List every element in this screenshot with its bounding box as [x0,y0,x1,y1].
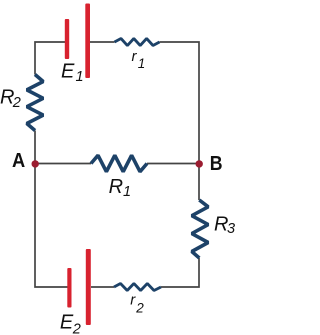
svg-text:1: 1 [123,184,131,200]
svg-text:2: 2 [72,321,81,335]
svg-text:3: 3 [227,221,235,237]
svg-text:E: E [61,61,75,83]
svg-text:2: 2 [12,95,21,111]
svg-text:2: 2 [135,300,144,315]
svg-text:1: 1 [76,69,84,85]
svg-text:1: 1 [138,56,146,71]
svg-text:B: B [210,153,223,175]
svg-text:E: E [60,312,74,334]
svg-text:R: R [109,176,123,198]
svg-text:A: A [12,150,25,172]
